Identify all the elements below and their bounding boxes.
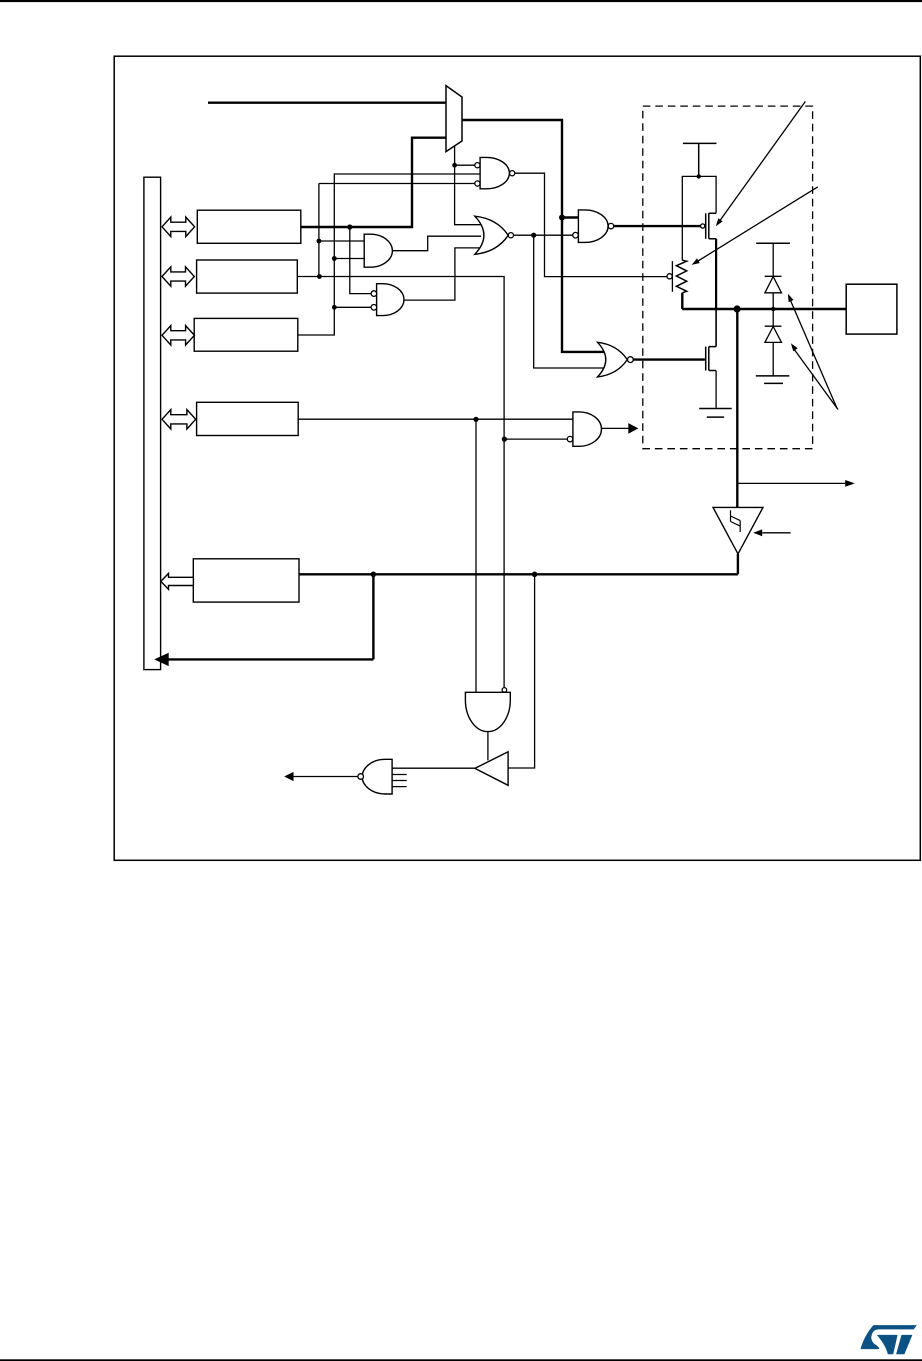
junction box3 net / U3 input [332, 305, 337, 310]
junction diode / pad rail [771, 307, 775, 311]
wire U1 lower net vertical [318, 184, 320, 277]
transistor T1 PMOS gate bubble [701, 224, 705, 228]
nand gate U10 (to ADC, faces left) [362, 759, 392, 794]
analog switch (triangle) [475, 752, 508, 786]
U5 output bubble [608, 223, 613, 228]
schmitt trigger U9 [713, 507, 763, 554]
wire box4 output [298, 418, 573, 420]
wire mux select to U4 top input [455, 146, 481, 225]
register box 1 [197, 210, 300, 243]
wire mux output (thick) [462, 120, 605, 352]
wire driver source frame [682, 176, 716, 260]
junction box3 net / U2 input [332, 256, 337, 261]
wire to U6 lower input [504, 438, 567, 440]
analog mux (trapezoid) [446, 86, 462, 152]
wire box1 net down to U3 [350, 227, 371, 294]
bus bar [144, 177, 161, 669]
register box 5 [193, 559, 299, 602]
wire pad to input path (thick) [736, 309, 738, 507]
resistor R1 control bubble [667, 274, 672, 279]
wire U9 output (thick) [299, 554, 738, 574]
U5 lower input bubble [573, 232, 579, 238]
U7 right input bubble [502, 688, 507, 693]
callout arrow to D1 [789, 297, 837, 408]
junction box4 net [473, 417, 478, 422]
wire box3 net to U2 lower input [334, 258, 364, 260]
and gate U2 [364, 234, 392, 267]
wire box4 net down to U7 [475, 419, 477, 692]
register box 4 [197, 402, 299, 435]
junction mux select / U1 input [452, 163, 457, 168]
figure frame [114, 56, 920, 860]
wire box1 output to mux input 2 (thick) [301, 138, 446, 227]
wire to analog switch [508, 574, 534, 768]
junction VDD node [697, 174, 701, 178]
diode D1 [765, 277, 782, 293]
wire U4 output [513, 234, 572, 236]
junction pull-down enable net [502, 437, 507, 442]
register box 3 [194, 318, 298, 351]
bus arrow 2 (bidirectional) [162, 267, 194, 286]
diode D2 cathode bar [765, 325, 782, 327]
feedback arrowhead [154, 653, 169, 666]
wire U5 output to PMOS gate (thick) [614, 225, 701, 227]
U8 output bubble [628, 357, 634, 363]
wire R1 bottom (thick) [681, 293, 683, 309]
junction box1 net [347, 224, 352, 229]
junction U2 upper input [317, 239, 322, 244]
callout arrow to D2 [792, 347, 838, 410]
wire pad rail (thick) [682, 308, 846, 310]
bus arrow 3 (bidirectional) [162, 326, 194, 345]
wire mux input 1 (thick) [208, 101, 446, 103]
junction analog path net [532, 572, 538, 578]
bus arrow 4 (bidirectional) [162, 410, 196, 429]
U6 lower input bubble [567, 436, 572, 441]
wire box2 output [297, 277, 504, 688]
wire U1 output (pull-up enable) [515, 173, 668, 276]
wire to U2 upper input [319, 240, 364, 242]
bus arrow 5 (read, hollow left arrow) [161, 573, 194, 589]
and gate U6 [573, 412, 602, 446]
ground symbol (diodes) [756, 376, 790, 384]
wire T1 drain (thick) [715, 239, 717, 309]
nand gate U1 [480, 157, 509, 188]
wire U8 output to NMOS gate (thick) [633, 358, 705, 360]
junction U5 upper input (thick net) [559, 215, 565, 221]
U9 hysteresis mark [731, 510, 741, 532]
page top rule [0, 0, 922, 2]
wire feedback to bus (thick) [168, 574, 374, 659]
U1 input bubble a [475, 163, 480, 168]
nand gate U5 [578, 210, 608, 243]
resistor R1 control bar [671, 261, 673, 292]
U9 enable arrow line [762, 532, 790, 534]
U10 output arrowhead [284, 772, 293, 781]
junction pad node [734, 305, 741, 312]
U1 input bubble b [475, 181, 480, 186]
page bottom rule [0, 1359, 922, 1361]
wire to U5 upper input (thick) [562, 216, 578, 218]
wire to U1 top input [455, 164, 475, 166]
and gate U7 (pull-down of analog switch) [465, 692, 510, 731]
callout arrow to R1 [694, 187, 817, 263]
callout arrow to T1 [718, 101, 805, 223]
wire U2 output to U4 middle input [392, 236, 481, 251]
wire diode column [772, 243, 774, 376]
U9 enable arrowhead [753, 529, 762, 536]
bus arrow 1 (bidirectional) [162, 217, 195, 236]
U10 output bubble [358, 774, 364, 780]
diode D1 cathode bar [765, 275, 782, 277]
wire U4 net to U8 lower input [534, 235, 605, 368]
U3 input bubble a [371, 291, 377, 297]
diode D2 [765, 327, 782, 343]
and gate U3 [377, 284, 404, 316]
I/O pad [846, 284, 897, 334]
ground symbol (driver) [699, 409, 732, 418]
U4 output bubble [508, 233, 513, 238]
wire U1 lower input [319, 183, 475, 185]
wire analog bus line [392, 767, 475, 769]
U1 output bubble [510, 171, 515, 176]
output driver dashed box [643, 106, 813, 449]
input wire arrowhead [845, 480, 855, 487]
wire T2 drain [715, 309, 717, 347]
ST logo [861, 1325, 917, 1354]
wire U6 output [602, 427, 629, 429]
junction input data net [371, 572, 377, 578]
wire T2 source [715, 371, 717, 408]
U6 output arrowhead [628, 423, 638, 434]
analog bus hatches [392, 775, 407, 787]
register box 2 [197, 260, 298, 293]
VDD rail symbol (driver) [683, 143, 717, 176]
wire box3 output [298, 174, 480, 335]
wire U3 output to U4 lower input [404, 248, 481, 300]
nor gate U4 [475, 216, 508, 254]
wire to on-chip peripheral (input) [737, 482, 845, 484]
wire U10 output [294, 776, 358, 778]
U3 input bubble b [371, 305, 377, 311]
VDD rail symbol (diodes) [756, 242, 790, 244]
junction box2 net [317, 274, 322, 279]
junction U4 output net [531, 233, 536, 238]
nor gate U8 [598, 342, 628, 377]
wire U7 output [487, 732, 489, 761]
transistor T2 NMOS [706, 347, 716, 371]
wire box3 net to U3 lower input [334, 306, 371, 308]
resistor R1 (zigzag) [676, 260, 686, 293]
transistor T1 PMOS [706, 213, 716, 239]
